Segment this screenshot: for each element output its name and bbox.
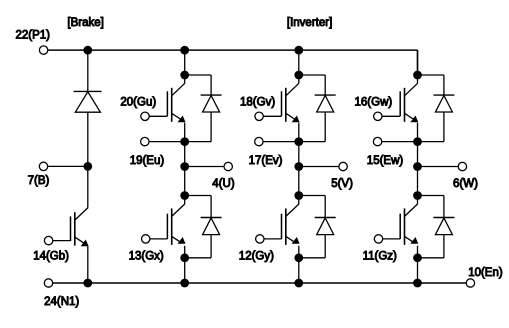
- wire QU1 emitter stub: [184, 123, 186, 142]
- wire DU2 anode branch: [210, 235, 212, 258]
- wire DV1 cathode branch: [299, 74, 325, 76]
- wire 19(Eu) to emitter node: [149, 141, 185, 143]
- svg-text:24(N1): 24(N1): [44, 296, 79, 308]
- terminal 16(Gw): [374, 112, 382, 120]
- svg-text:7(B): 7(B): [28, 175, 50, 187]
- svg-text:[Brake]: [Brake]: [67, 17, 103, 29]
- transistor QV2 (lower IGBT): [264, 238, 282, 240]
- wire DW2 cathode branch: [418, 195, 444, 197]
- transistor QW1 (upper IGBT): [382, 115, 401, 117]
- wire P1 bus drop to W leg: [417, 50, 419, 75]
- diode DU2 (lower freewheel): [201, 217, 222, 219]
- wire DW2 anode branch: [443, 235, 445, 258]
- junction W output node: [413, 162, 422, 171]
- wire output node to 5(V): [299, 166, 339, 168]
- junction P1/brake: [83, 46, 92, 55]
- junction P1/V leg: [294, 46, 303, 55]
- transistor QW2 (lower IGBT): [383, 238, 401, 240]
- junction U upper collector: [180, 71, 189, 80]
- terminal 7(B): [39, 162, 47, 170]
- wire output node to W lower collector: [417, 167, 419, 196]
- wire V leg top: [298, 50, 300, 75]
- wire output node to U lower collector: [184, 167, 186, 196]
- wire DU1 anode branch: [210, 112, 212, 142]
- junction V upper collector: [294, 71, 303, 80]
- wire brake diode anode to node B: [87, 112, 89, 166]
- terminal 17(Ev): [255, 137, 263, 145]
- wire V emitter to output node: [298, 142, 300, 167]
- terminal 12(Gy): [256, 235, 264, 243]
- wire output node to 6(W): [418, 166, 459, 168]
- terminal 13(Gx): [142, 235, 150, 243]
- junction W emitter node: [413, 137, 422, 146]
- svg-text:22(P1): 22(P1): [16, 29, 51, 41]
- wire N1 bus (bottom): [53, 282, 466, 284]
- wire QW2 emitter stub: [417, 246, 419, 258]
- wire DV2 anode branch: [324, 235, 326, 258]
- wire W upper collector stub: [417, 75, 419, 83]
- svg-text:4(U): 4(U): [212, 178, 235, 190]
- terminal 14(Gb): [44, 236, 52, 244]
- svg-text:12(Gy): 12(Gy): [239, 251, 274, 263]
- wire U emitter to output node: [184, 142, 186, 167]
- terminal 4(U): [224, 162, 232, 170]
- wire V lower collector stub: [298, 196, 300, 204]
- wire DV1 anode branch: [324, 112, 326, 142]
- svg-text:18(Gv): 18(Gv): [240, 96, 275, 108]
- transistor Q7 (brake IGBT): [53, 240, 71, 242]
- wire W lower collector stub: [417, 196, 419, 204]
- wire W lower emitter to N1 bus: [417, 258, 419, 283]
- diode DW1 (upper freewheel): [433, 94, 454, 96]
- terminal 10(En): [466, 279, 474, 287]
- wire node B to Q7 collector: [87, 166, 89, 207]
- wire U lower emitter to N1 bus: [184, 258, 186, 283]
- transistor QU2 (lower IGBT): [150, 238, 168, 240]
- wire W leg top: [417, 50, 419, 75]
- svg-text:14(Gb): 14(Gb): [33, 251, 69, 263]
- wire P1 bus (top): [48, 49, 418, 51]
- junction V emitter node: [294, 137, 303, 146]
- diode DV2 (lower freewheel): [315, 217, 336, 219]
- junction U lower collector: [180, 191, 189, 200]
- wire DV2 cathode branch: [299, 195, 325, 197]
- junction V/N1 bus: [294, 279, 303, 288]
- svg-text:16(Gw): 16(Gw): [355, 96, 393, 108]
- wire DW1 anode branch: [443, 112, 445, 142]
- junction W lower collector: [413, 191, 422, 200]
- svg-text:17(Ev): 17(Ev): [249, 155, 283, 167]
- diode D7 (brake): [74, 90, 102, 92]
- wire U leg top: [184, 50, 186, 75]
- wire U lower collector stub: [184, 196, 186, 204]
- terminal 11(Gz): [374, 235, 382, 243]
- wire Q7 emitter to N1 bus: [87, 246, 89, 283]
- junction W upper collector: [413, 71, 422, 80]
- svg-text:20(Gu): 20(Gu): [120, 96, 156, 108]
- terminal 15(Ew): [373, 137, 381, 145]
- wire DW1 cathode branch: [418, 74, 444, 76]
- svg-text:15(Ew): 15(Ew): [367, 155, 404, 167]
- junction V lower emitter node: [294, 253, 303, 262]
- wire output node to V lower collector: [298, 167, 300, 196]
- junction P1/U leg: [180, 46, 189, 55]
- wire DU2 cathode branch: [185, 195, 211, 197]
- wire V lower emitter to N1 bus: [298, 258, 300, 283]
- wire output node to 4(U): [185, 166, 224, 168]
- terminal 6(W): [458, 162, 466, 170]
- svg-text:5(V): 5(V): [331, 178, 353, 190]
- junction brake/N1 bus: [83, 279, 92, 288]
- junction W/N1 bus: [413, 279, 422, 288]
- terminal 18(Gv): [255, 112, 263, 120]
- wire W emitter to output node: [417, 142, 419, 167]
- svg-text:11(Gz): 11(Gz): [363, 251, 397, 263]
- svg-text:10(En): 10(En): [468, 267, 503, 279]
- transistor QV1 (upper IGBT): [263, 115, 282, 117]
- svg-text:[Inverter]: [Inverter]: [287, 17, 332, 29]
- wire U upper collector stub: [184, 75, 186, 83]
- svg-text:19(Eu): 19(Eu): [130, 155, 165, 167]
- wire QU2 emitter stub: [184, 246, 186, 258]
- wire brake diode cathode: [87, 50, 89, 91]
- transistor QU1 (upper IGBT): [149, 115, 168, 117]
- wire 7(B) to node B: [48, 165, 88, 167]
- wire QW1 emitter stub: [417, 123, 419, 142]
- wire V upper collector stub: [298, 75, 300, 83]
- diode DV1 (upper freewheel): [315, 94, 336, 96]
- junction V output node: [294, 162, 303, 171]
- diode DW2 (lower freewheel): [433, 217, 454, 219]
- wire DU1 cathode branch: [185, 74, 211, 76]
- terminal 19(Eu): [141, 137, 149, 145]
- junction W lower emitter node: [413, 253, 422, 262]
- terminal 20(Gu): [141, 112, 149, 120]
- junction U emitter node: [180, 137, 189, 146]
- junction U output node: [180, 162, 189, 171]
- svg-text:6(W): 6(W): [453, 178, 478, 190]
- diode DU1 (upper freewheel): [201, 94, 222, 96]
- wire 15(Ew) to emitter node: [382, 141, 418, 143]
- wire QV2 emitter stub: [298, 246, 300, 258]
- terminal 5(V): [339, 162, 347, 170]
- junction V lower collector: [294, 191, 303, 200]
- wire 17(Ev) to emitter node: [263, 141, 299, 143]
- wire QV1 emitter stub: [298, 123, 300, 142]
- terminal 22(P1): [39, 46, 47, 54]
- svg-text:13(Gx): 13(Gx): [129, 251, 164, 263]
- terminal 24(N1): [44, 279, 52, 287]
- junction node B: [83, 162, 92, 171]
- junction U lower emitter node: [180, 253, 189, 262]
- junction U/N1 bus: [180, 279, 189, 288]
